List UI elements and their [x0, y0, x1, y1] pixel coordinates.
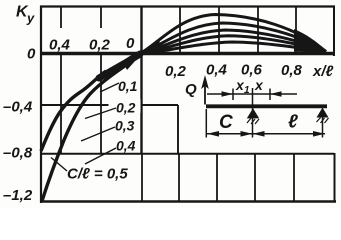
main vertical axis x=0: [140, 7, 142, 154]
grid right border upper: [333, 6, 335, 57]
lower dimension line C,l: [207, 133, 326, 135]
svg-text:–1,2: –1,2: [3, 187, 33, 204]
svg-text:x/ℓ: x/ℓ: [312, 63, 334, 80]
curves origin bundle fill: [142, 40, 160, 54]
grid left border: [40, 6, 42, 204]
zero axis line: [41, 52, 334, 55]
curve C/l=0.5 right branch: [141, 42, 326, 53]
console bundle band: [99, 54, 140, 78]
curve C/l=0.3 right branch: [141, 30, 326, 53]
beam diagram: load arrow Q: [204, 84, 206, 105]
leader 0,3: [81, 127, 115, 141]
svg-text:1: 1: [244, 85, 250, 96]
left end extension line: [205, 109, 207, 138]
grid line x=-0.4 lower: [60, 54, 62, 154]
leader 0,5: [51, 158, 67, 172]
dim arrow right into x1 tick: [222, 91, 234, 97]
grid line x=0.6 upper: [257, 7, 259, 54]
svg-text:0,4: 0,4: [116, 138, 136, 154]
curve C/l=0.5 console branch: [42, 56, 139, 201]
leader 0,4: [85, 148, 116, 164]
tick stub x=-0.2: [100, 7, 102, 29]
svg-text:C/ℓ = 0,5: C/ℓ = 0,5: [67, 166, 128, 183]
grid line x=0.4 upper: [218, 7, 220, 54]
curves merge wedge: [294, 29, 326, 53]
svg-text:C: C: [219, 112, 233, 133]
curve C/l=0.2 right branch: [141, 23, 326, 53]
svg-text:0,2: 0,2: [116, 100, 136, 116]
leader 0,1: [100, 83, 119, 92]
curve C/l=0.4 console branch: [41, 71, 106, 151]
grid right border lower: [334, 153, 336, 201]
svg-text:Q: Q: [185, 81, 197, 98]
tick stub x=-0.4: [60, 7, 62, 29]
bottom row vertical x=0: [141, 154, 143, 202]
upper dimension line x1,x: [207, 89, 297, 101]
label mask for 0,2: [109, 99, 141, 113]
dim arrow C right: [241, 131, 253, 137]
svg-text:y: y: [26, 11, 35, 26]
console bundle arrowhead: [123, 56, 141, 71]
svg-text:0,3: 0,3: [115, 118, 135, 134]
grid line x=-0.2 lower: [100, 54, 102, 154]
svg-text:0,2: 0,2: [165, 63, 187, 80]
svg-text:0,4: 0,4: [206, 62, 228, 79]
right support extension: [322, 117, 324, 138]
dim arrow C left: [207, 131, 219, 137]
bottom row vertical x=0.2: [178, 154, 180, 202]
dim arrow l left: [253, 131, 265, 137]
grid line x=0.8 upper: [295, 7, 297, 54]
svg-text:0: 0: [126, 35, 135, 52]
left support centerline: [252, 88, 254, 138]
grid line x=0.2 upper: [179, 7, 181, 54]
grid line -0.4: [41, 104, 178, 106]
bottom row vertical x=0.8: [293, 154, 295, 202]
leader 0,2: [85, 108, 116, 119]
right support: [317, 108, 329, 118]
inset white panel: [144, 56, 341, 153]
svg-text:–0,4: –0,4: [3, 99, 33, 116]
console strand 0.2: [106, 64, 129, 80]
bottom row vertical x=0.4: [216, 154, 218, 202]
grid line x=0.2 mid segment: [177, 105, 179, 154]
svg-text:x: x: [254, 77, 264, 93]
grid line -0.8: [41, 153, 334, 155]
curve C/l=0.4 right branch: [141, 36, 326, 53]
left support: [247, 108, 259, 118]
svg-text:0,1: 0,1: [118, 78, 138, 94]
curve C/l=0.1 right branch: [141, 15, 326, 54]
svg-text:ℓ: ℓ: [288, 112, 298, 133]
bottom row vertical x=0.6: [254, 154, 256, 202]
console strand 0.1: [112, 61, 133, 75]
dim arrow l right: [313, 131, 325, 137]
grid top border: [40, 5, 335, 7]
svg-text:0,2: 0,2: [89, 37, 111, 54]
grid bottom border: [40, 200, 336, 202]
beam line: [206, 104, 327, 108]
svg-text:0: 0: [27, 46, 36, 63]
svg-text:0,6: 0,6: [241, 62, 263, 79]
svg-text:0,4: 0,4: [49, 37, 71, 54]
dim arrow left into x tick: [270, 91, 282, 97]
svg-text:–0,8: –0,8: [3, 145, 33, 162]
svg-text:0,8: 0,8: [281, 62, 303, 79]
